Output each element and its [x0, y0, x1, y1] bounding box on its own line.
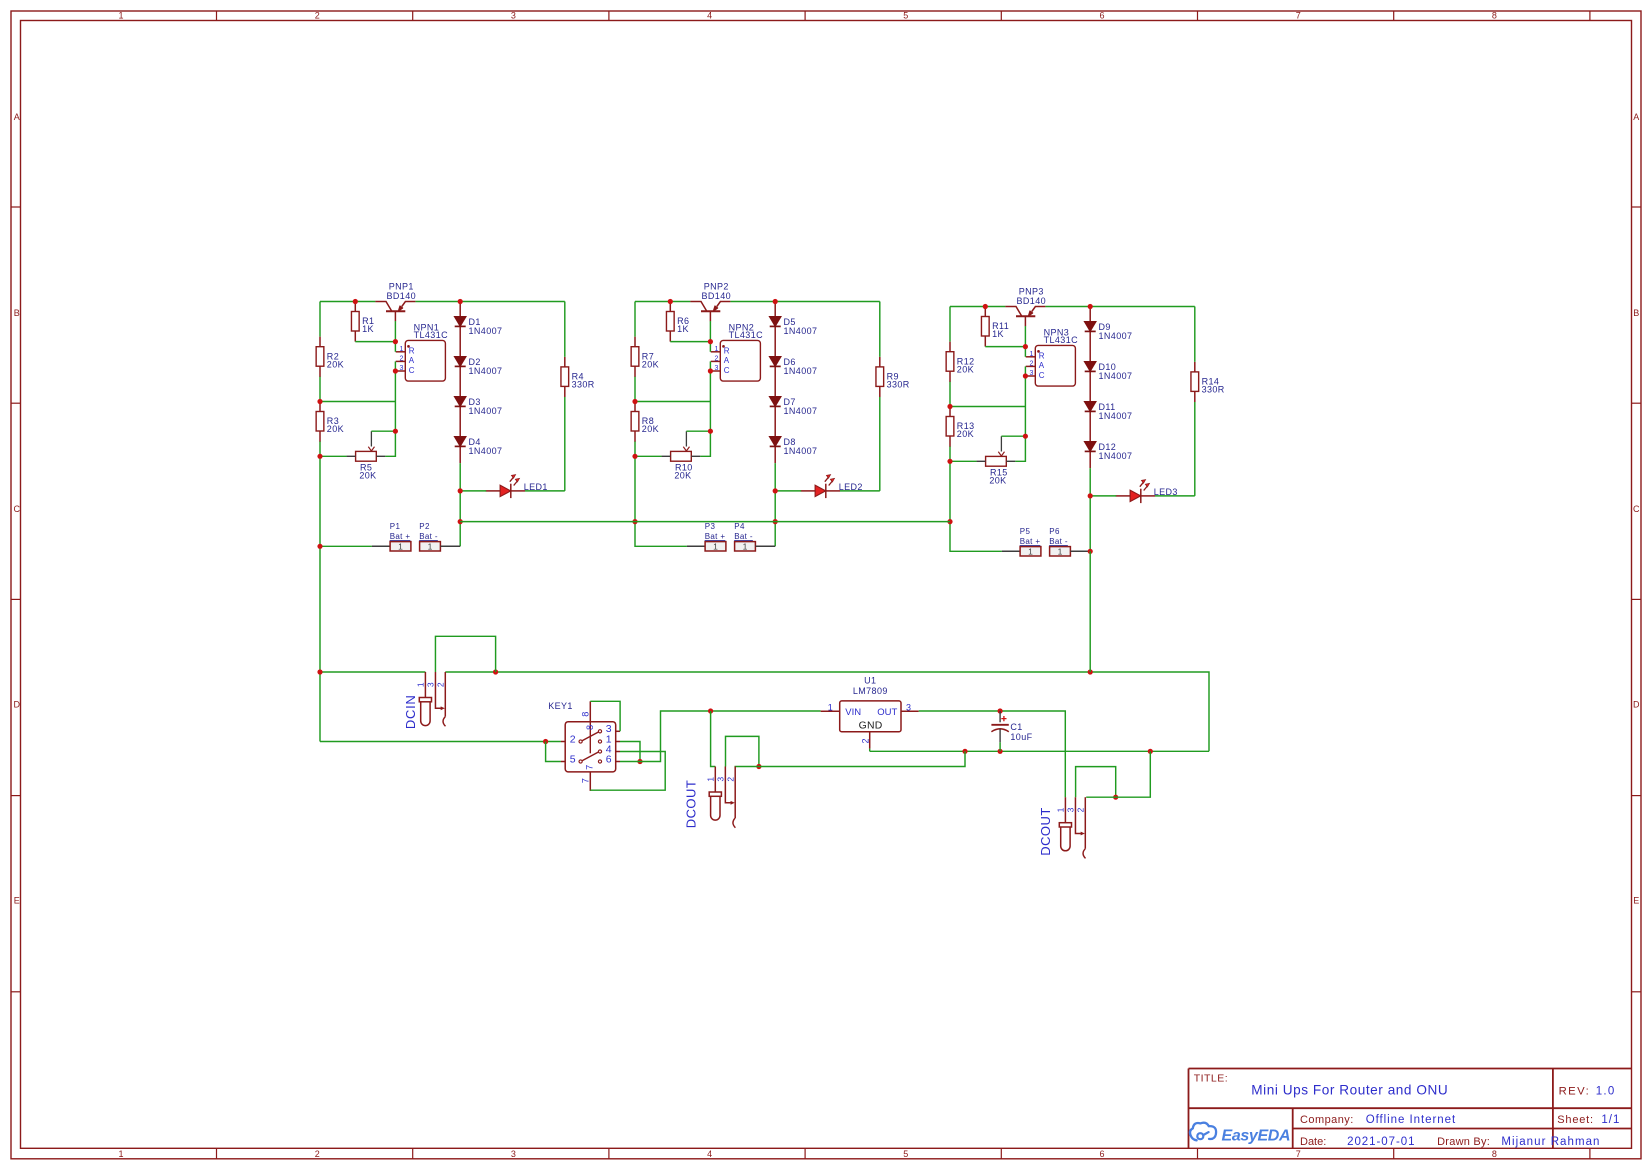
- svg-text:BD140: BD140: [1017, 296, 1047, 306]
- connector DCOUT barrel jack pin1: [709, 767, 721, 821]
- svg-text:TL431C: TL431C: [414, 330, 449, 340]
- wire: DCIN pin3 jump loop: [435, 636, 495, 672]
- wire: KEY1 pin5 branch: [546, 742, 561, 762]
- wire: left rail of stage 3: [950, 307, 1002, 552]
- wire: rail to TL431 row stage 1: [320, 401, 395, 403]
- svg-text:P3: P3: [705, 522, 716, 531]
- wire: diode chain leads stage 3: [1089, 307, 1091, 469]
- wire: DCOUT row to ground rail: [735, 751, 966, 766]
- wire: R2 330R column bottom: [879, 302, 881, 491]
- connector DCOUT barrel jack pin1: [1059, 797, 1071, 851]
- svg-text:A: A: [14, 112, 20, 122]
- wire: TL431 pins 2-3 down-link stage 1: [394, 361, 396, 431]
- svg-text:DCOUT: DCOUT: [1038, 807, 1053, 855]
- svg-text:TITLE:: TITLE:: [1194, 1073, 1229, 1085]
- wire: regulator output row: [919, 711, 1066, 797]
- svg-text:2: 2: [715, 356, 719, 363]
- wire: KEY1 pin1 to pin6 link: [620, 742, 640, 762]
- svg-text:20K: 20K: [642, 359, 659, 369]
- wire: diode column bottom stage 1: [459, 463, 461, 546]
- junction rail / pot row stage 1 (320,456.3): [317, 454, 322, 459]
- resistor R7: [631, 337, 659, 377]
- EasyEDA logo: [1190, 1123, 1290, 1145]
- svg-text:3: 3: [1066, 807, 1076, 812]
- svg-text:B: B: [1633, 308, 1639, 318]
- svg-text:8: 8: [1492, 1149, 1497, 1159]
- svg-text:7: 7: [585, 765, 595, 770]
- wire: diode chain leads stage 1: [459, 302, 461, 464]
- svg-text:1N4007: 1N4007: [784, 446, 818, 456]
- wire: base link R1 to TL431 pin 1: [355, 321, 395, 352]
- wire: rail to KEY1 (row 741.5): [320, 741, 561, 743]
- svg-text:P6: P6: [1049, 527, 1060, 536]
- junction diode column / battery bus stage 2 (775.2,521.6): [773, 519, 778, 524]
- junction wiper tee stage 1 (395.4,431.2): [393, 429, 398, 434]
- capacitor C1 10uF: [991, 711, 1032, 751]
- svg-text:1K: 1K: [992, 329, 1004, 339]
- svg-text:10uF: 10uF: [1010, 732, 1032, 742]
- svg-text:330R: 330R: [887, 380, 910, 390]
- svg-text:Bat +: Bat +: [1020, 537, 1041, 546]
- junction rail / battery bus stage 2 (635,521.6): [632, 519, 637, 524]
- svg-text:6: 6: [1099, 10, 1104, 20]
- svg-text:1N4007: 1N4007: [1099, 411, 1133, 421]
- svg-text:8: 8: [1492, 10, 1497, 20]
- svg-text:C: C: [724, 366, 730, 375]
- svg-text:1: 1: [1056, 807, 1066, 812]
- LED LED1: [486, 475, 548, 499]
- svg-text:P5: P5: [1020, 527, 1031, 536]
- svg-text:Sheet:: Sheet:: [1557, 1114, 1594, 1126]
- svg-text:R: R: [1039, 352, 1045, 361]
- connector DCIN pin3 switch arm: [435, 672, 444, 710]
- svg-text:Mini Ups For Router and ONU: Mini Ups For Router and ONU: [1251, 1083, 1448, 1098]
- DCIN pin numbers: [416, 682, 446, 687]
- diode D3: [454, 397, 502, 417]
- diode D2: [454, 357, 502, 377]
- svg-text:1.0: 1.0: [1596, 1086, 1616, 1098]
- connector P2 (Bat -): [419, 522, 440, 552]
- svg-text:1: 1: [1028, 547, 1033, 557]
- wire: base link R2 to TL431 pin 1: [670, 321, 710, 352]
- svg-text:1K: 1K: [677, 324, 689, 334]
- svg-text:7: 7: [1296, 10, 1301, 20]
- svg-text:20K: 20K: [359, 471, 376, 481]
- svg-text:2: 2: [570, 733, 576, 745]
- svg-text:1N4007: 1N4007: [1099, 371, 1133, 381]
- svg-text:20K: 20K: [642, 424, 659, 434]
- svg-text:1: 1: [713, 542, 718, 552]
- wire: KEY1 pin8 to pin3 loop: [590, 701, 620, 731]
- svg-text:EasyEDA: EasyEDA: [1222, 1127, 1291, 1144]
- svg-text:VIN: VIN: [845, 707, 861, 718]
- connector DCOUT pin2 sleeve contact: [1083, 797, 1085, 858]
- svg-text:20K: 20K: [957, 429, 974, 439]
- diode D8: [769, 437, 817, 457]
- shunt regulator NPN2 (TL431C): [711, 322, 763, 381]
- svg-text:2: 2: [1030, 361, 1034, 368]
- junction top rail / R lead stage 1 (355.3,301.5): [353, 299, 358, 304]
- svg-text:OUT: OUT: [877, 707, 897, 718]
- svg-text:5: 5: [903, 1149, 908, 1159]
- svg-text:Drawn By:: Drawn By:: [1437, 1136, 1490, 1148]
- junction diode column / P6 lead stage 3 (1090.2,551.3): [1088, 549, 1093, 554]
- wire: pot left link stage 1: [320, 455, 347, 457]
- wire: top rail of stage 1: [320, 301, 565, 303]
- junction (1150.3,751.3): [1148, 749, 1153, 754]
- svg-text:4: 4: [707, 1149, 712, 1159]
- wire: rail to TL431 row stage 2: [635, 401, 710, 403]
- wire: DCOUT2 pin3 jump loop: [1076, 767, 1116, 798]
- svg-text:TL431C: TL431C: [1044, 335, 1079, 345]
- svg-text:Bat +: Bat +: [390, 532, 411, 541]
- svg-text:1: 1: [398, 542, 403, 552]
- connector DCIN pin2 sleeve contact: [443, 672, 445, 726]
- svg-text:3: 3: [906, 703, 911, 713]
- connector P5 (Bat +): [1020, 527, 1041, 557]
- svg-text:C: C: [1039, 371, 1045, 380]
- resistor R1: [351, 302, 374, 342]
- junction rail / TL431 row stage 1 (320,401.5): [317, 399, 322, 404]
- svg-text:2: 2: [436, 682, 446, 687]
- svg-text:1N4007: 1N4007: [784, 406, 818, 416]
- wire: TL431 pins 2-3 down-link stage 3: [1024, 366, 1026, 436]
- wire: ground rail: [870, 750, 1209, 752]
- diode D5: [769, 317, 817, 337]
- shunt regulator NPN3 (TL431C): [1026, 327, 1078, 386]
- svg-text:Date:: Date:: [1300, 1136, 1326, 1148]
- svg-text:KEY1: KEY1: [548, 701, 573, 711]
- junction base / R lead stage 1 (395.4,341.6): [393, 339, 398, 344]
- connector P3 (Bat +): [705, 522, 726, 552]
- potentiometer R10: [662, 431, 701, 480]
- wire: left rail of stage 1: [319, 302, 321, 742]
- svg-text:1/1: 1/1: [1601, 1114, 1620, 1126]
- wire: diode chain leads stage 2: [774, 302, 776, 464]
- connector P4 (Bat -): [734, 522, 755, 552]
- wire: Bat+ lead stage 2: [687, 545, 705, 547]
- junction (1000.1,711): [998, 708, 1003, 713]
- junction LED row stage 2 (775.2,490.9): [773, 488, 778, 493]
- svg-text:1N4007: 1N4007: [469, 446, 503, 456]
- svg-text:20K: 20K: [327, 359, 344, 369]
- svg-text:2: 2: [400, 356, 404, 363]
- junction rail / pot row stage 3 (950,461.3): [947, 459, 952, 464]
- svg-text:1N4007: 1N4007: [1099, 451, 1133, 461]
- svg-text:1N4007: 1N4007: [469, 366, 503, 376]
- svg-text:7: 7: [1296, 1149, 1301, 1159]
- junction LED row stage 3 (1090.2,495.9): [1088, 493, 1093, 498]
- svg-text:1N4007: 1N4007: [784, 366, 818, 376]
- svg-text:E: E: [1633, 896, 1639, 906]
- LED LED2: [801, 475, 863, 499]
- junction rail / TL431 row stage 3 (950,406.5): [947, 404, 952, 409]
- junction (495.6,672): [493, 669, 498, 674]
- diode D6: [769, 357, 817, 377]
- resistor R14: [1191, 362, 1225, 402]
- wire: LED row stage 3: [1090, 495, 1195, 497]
- resistor R2: [316, 337, 344, 377]
- svg-text:R: R: [409, 347, 415, 356]
- wire: top rail of stage 3: [950, 306, 1195, 308]
- svg-text:PNP2: PNP2: [704, 282, 729, 292]
- svg-text:1: 1: [1030, 351, 1034, 358]
- junction (965,751.3): [962, 749, 967, 754]
- svg-text:BD140: BD140: [387, 291, 417, 301]
- junction rail / TL431 row stage 2 (635,401.5): [632, 399, 637, 404]
- junction top rail / R lead stage 3 (985.3,306.5): [983, 304, 988, 309]
- svg-text:330R: 330R: [1202, 385, 1225, 395]
- wire: wiper link stage 1: [371, 430, 395, 432]
- svg-text:Bat -: Bat -: [1049, 537, 1068, 546]
- svg-text:3: 3: [511, 10, 516, 20]
- svg-text:Mijanur Rahman: Mijanur Rahman: [1501, 1136, 1600, 1148]
- junction rail / pot row stage 2 (635,456.3): [632, 454, 637, 459]
- resistor R4: [561, 357, 595, 397]
- wire: Bat- lead stage 3: [1070, 550, 1090, 552]
- svg-text:D: D: [1633, 700, 1640, 710]
- svg-text:C1: C1: [1010, 722, 1022, 732]
- wire: pot right link stage 2: [700, 431, 710, 456]
- svg-text:E: E: [14, 896, 20, 906]
- svg-text:20K: 20K: [989, 476, 1006, 486]
- resistor R12: [946, 342, 974, 382]
- svg-text:1: 1: [118, 10, 123, 20]
- svg-text:LM7809: LM7809: [853, 686, 888, 696]
- junction base / R lead stage 3 (1025.4,346.6): [1023, 344, 1028, 349]
- svg-text:Offline Internet: Offline Internet: [1366, 1114, 1456, 1126]
- junction (1115.7,797.2): [1113, 795, 1118, 800]
- svg-text:1N4007: 1N4007: [1099, 331, 1133, 341]
- wire: pot left link stage 3: [950, 460, 977, 462]
- junction TL431 pin3 stage 2 (710.4,371.0): [708, 368, 713, 373]
- junction (320,672): [317, 669, 322, 674]
- switch KEY1 (DPDT): [548, 701, 620, 791]
- junction (710.6,711): [708, 708, 713, 713]
- wire: Bat+ lead stage 3: [1002, 550, 1020, 552]
- svg-text:20K: 20K: [674, 471, 691, 481]
- svg-text:1: 1: [743, 542, 748, 552]
- svg-text:3: 3: [426, 682, 436, 687]
- wire: R1 330R column bottom: [564, 302, 566, 491]
- wire: DCOUT pin3 jump loop: [726, 736, 759, 766]
- wire: top rail of stage 2: [635, 301, 880, 303]
- wire: KEY1 pin6 to regulator input: [620, 711, 821, 762]
- svg-text:1N4007: 1N4007: [784, 326, 818, 336]
- svg-text:Company:: Company:: [1300, 1114, 1354, 1126]
- transistor PNP3 (PNP BD140): [1005, 287, 1046, 327]
- svg-text:U1: U1: [864, 675, 876, 685]
- svg-text:DCIN: DCIN: [403, 695, 418, 730]
- svg-text:REV:: REV:: [1559, 1086, 1591, 1098]
- junction (640,761.5): [637, 759, 642, 764]
- svg-text:1: 1: [400, 346, 404, 353]
- svg-text:2021-07-01: 2021-07-01: [1347, 1136, 1415, 1148]
- diode D10: [1084, 362, 1132, 382]
- svg-text:4: 4: [707, 10, 712, 20]
- resistor R3: [316, 402, 344, 442]
- DCOUT pin numbers: [1056, 807, 1086, 812]
- junction rail / P1 lead stage 1 (320,546.3): [317, 544, 322, 549]
- transistor PNP2 (PNP BD140): [690, 282, 731, 322]
- resistor R8: [631, 402, 659, 442]
- wire: KEY1 pin4 to pin7 loop: [590, 752, 665, 791]
- svg-text:1: 1: [428, 542, 433, 552]
- junction top rail / diode column stage 3 (1090.2,306.5): [1088, 304, 1093, 309]
- svg-text:20K: 20K: [327, 424, 344, 434]
- junction rail / battery bus stage 3 (950,521.6): [947, 519, 952, 524]
- svg-text:3: 3: [511, 1149, 516, 1159]
- wire: pot right link stage 1: [385, 431, 395, 456]
- title block texts: [1194, 1073, 1621, 1148]
- svg-text:7: 7: [580, 778, 590, 783]
- junction top rail / diode column stage 2 (775.2,301.5): [773, 299, 778, 304]
- junction diode column / battery bus stage 1 (460.2,521.6): [458, 519, 463, 524]
- junction (1090.2,672): [1088, 669, 1093, 674]
- wire: stage3 diode column to bus: [1089, 551, 1091, 672]
- svg-text:2: 2: [315, 10, 320, 20]
- connector DCOUT pin3 switch arm: [1075, 797, 1084, 835]
- junction wiper tee stage 3 (1025.4,436.2): [1023, 434, 1028, 439]
- svg-text:1N4007: 1N4007: [469, 326, 503, 336]
- svg-text:PNP3: PNP3: [1019, 287, 1044, 297]
- diode D1: [454, 317, 502, 337]
- title block frame: [1189, 1069, 1632, 1149]
- wire: P1 lead: [320, 545, 390, 547]
- wire: R3 330R column bottom: [1194, 307, 1196, 496]
- resistor R13: [946, 407, 974, 447]
- wire: Bat- lead stage 2: [755, 545, 775, 547]
- diode D12: [1084, 442, 1132, 462]
- svg-text:DCOUT: DCOUT: [684, 780, 699, 828]
- svg-text:3: 3: [400, 365, 404, 372]
- wire: DCOUT2 row to ground rail: [1086, 751, 1150, 797]
- junction TL431 pin3 stage 3 (1025.4,376.0): [1023, 373, 1028, 378]
- svg-text:1: 1: [118, 1149, 123, 1159]
- wire: base link R3 to TL431 pin 1: [985, 326, 1025, 357]
- svg-text:C: C: [14, 504, 21, 514]
- svg-text:6: 6: [606, 753, 612, 765]
- svg-text:1: 1: [706, 777, 716, 782]
- wire: wiper link stage 3: [1001, 435, 1025, 437]
- junction TL431 pin3 stage 1 (395.4,371.0): [393, 368, 398, 373]
- wire: diode column bottom stage 3: [1089, 468, 1091, 551]
- svg-text:A: A: [724, 356, 730, 365]
- svg-text:1: 1: [715, 346, 719, 353]
- DCOUT pin numbers: [706, 777, 736, 782]
- diode D11: [1084, 402, 1132, 422]
- wire: TL431 pins 2-3 down-link stage 2: [709, 361, 711, 431]
- svg-text:1: 1: [416, 682, 426, 687]
- resistor R9: [876, 357, 910, 397]
- svg-text:2: 2: [315, 1149, 320, 1159]
- svg-text:2: 2: [1076, 807, 1086, 812]
- wire: battery positive bus (row 521.6): [460, 521, 950, 523]
- connector P1 (Bat +): [390, 522, 411, 552]
- connector DCIN barrel jack pin1: [419, 672, 431, 726]
- svg-text:1: 1: [1058, 547, 1063, 557]
- potentiometer R15: [977, 436, 1016, 485]
- svg-text:A: A: [409, 356, 415, 365]
- svg-text:BD140: BD140: [702, 291, 732, 301]
- svg-text:P1: P1: [390, 522, 401, 531]
- svg-text:1K: 1K: [362, 324, 374, 334]
- diode D4: [454, 437, 502, 457]
- svg-text:5: 5: [570, 753, 576, 765]
- wire: left rail of stage 2: [635, 302, 687, 547]
- svg-text:6: 6: [1099, 1149, 1104, 1159]
- wire: pot right link stage 3: [1015, 436, 1025, 461]
- wire: main input bus (row 672): [320, 672, 1209, 751]
- svg-text:GND: GND: [859, 720, 883, 731]
- svg-text:3: 3: [1030, 370, 1034, 377]
- svg-text:330R: 330R: [572, 380, 595, 390]
- potentiometer R5: [347, 431, 386, 480]
- transistor PNP1 (PNP BD140): [375, 282, 416, 322]
- svg-text:2: 2: [725, 777, 735, 782]
- svg-text:PNP1: PNP1: [389, 282, 414, 292]
- regulator U1 LM7809: [821, 675, 919, 751]
- svg-text:8: 8: [585, 725, 595, 730]
- svg-text:3: 3: [716, 777, 726, 782]
- junction wiper tee stage 2 (710.4,431.2): [708, 429, 713, 434]
- diode D9: [1084, 322, 1132, 342]
- wire: VIN node down to DCOUT pin1: [711, 711, 716, 767]
- svg-text:Bat -: Bat -: [734, 532, 753, 541]
- wire: LED row stage 1: [460, 490, 565, 492]
- svg-text:R: R: [724, 347, 730, 356]
- junction LED row stage 1 (460.2,490.9): [458, 488, 463, 493]
- svg-text:Bat +: Bat +: [705, 532, 726, 541]
- LED LED3: [1116, 480, 1178, 504]
- svg-text:3: 3: [715, 365, 719, 372]
- junction (1000.1,751.3): [998, 749, 1003, 754]
- svg-text:C: C: [1633, 504, 1640, 514]
- junction top rail / diode column stage 1 (460.2,301.5): [458, 299, 463, 304]
- svg-text:D: D: [14, 700, 21, 710]
- svg-text:B: B: [14, 308, 20, 318]
- ruler letters: [14, 112, 1641, 906]
- svg-text:1N4007: 1N4007: [469, 406, 503, 416]
- svg-text:Bat -: Bat -: [419, 532, 438, 541]
- junction (758.9,766.5): [756, 764, 761, 769]
- wire: wiper link stage 2: [686, 430, 710, 432]
- svg-text:20K: 20K: [957, 364, 974, 374]
- wire: Bat- lead stage 1: [440, 545, 460, 547]
- svg-text:C: C: [409, 366, 415, 375]
- wire: LED row stage 2: [775, 490, 880, 492]
- svg-text:P4: P4: [734, 522, 745, 531]
- shunt regulator NPN1 (TL431C): [396, 322, 448, 381]
- svg-text:P2: P2: [419, 522, 430, 531]
- junction (545.6,741.5): [543, 739, 548, 744]
- svg-text:TL431C: TL431C: [729, 330, 764, 340]
- wire: diode column bottom stage 2: [774, 463, 776, 546]
- svg-text:1: 1: [828, 703, 833, 713]
- resistor R11: [981, 307, 1009, 347]
- svg-text:5: 5: [903, 10, 908, 20]
- connector P6 (Bat -): [1049, 527, 1070, 557]
- svg-text:A: A: [1633, 112, 1639, 122]
- junction top rail / R lead stage 2 (670.3,301.5): [668, 299, 673, 304]
- wire: pot left link stage 2: [635, 455, 662, 457]
- connector DCOUT pin3 switch arm: [725, 767, 734, 805]
- diode D7: [769, 397, 817, 417]
- connector DCOUT pin2 sleeve contact: [733, 767, 735, 828]
- junction base / R lead stage 2 (710.4,341.6): [708, 339, 713, 344]
- svg-text:2: 2: [861, 738, 871, 743]
- resistor R6: [666, 302, 689, 342]
